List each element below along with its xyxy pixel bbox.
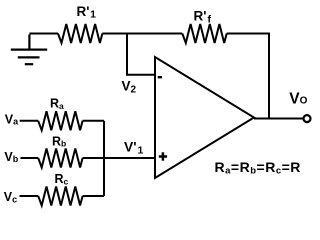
node bus (summing junction rail)	[103, 121, 105, 196]
wire R'f to output node (feedback)	[227, 34, 269, 119]
op-amp U1	[155, 57, 254, 178]
wire Vc to Rc	[20, 195, 39, 197]
wire Vb to Rb	[21, 157, 39, 159]
resistor R'f	[182, 24, 226, 43]
wire node to inverting input (V2 branch)	[127, 34, 155, 75]
ground	[11, 35, 47, 65]
wire Ra to bus	[83, 120, 104, 122]
wire Rc to bus	[83, 195, 104, 197]
pin + (non-inverting input mark)	[159, 152, 167, 160]
resistor Rb	[38, 149, 82, 168]
resistor R'1	[58, 24, 102, 43]
resistor Ra	[38, 111, 82, 130]
wire Rb to + input through bus (node V'1)	[83, 157, 155, 159]
wire op-amp output to terminal	[254, 118, 303, 120]
wire Va to Ra	[20, 120, 39, 122]
resistor Rc	[38, 187, 82, 206]
wire R'1 to R'f	[102, 33, 182, 35]
pin - (inverting input mark)	[158, 76, 162, 78]
wire ground to R'1	[29, 33, 58, 35]
output terminal circle	[304, 115, 311, 122]
